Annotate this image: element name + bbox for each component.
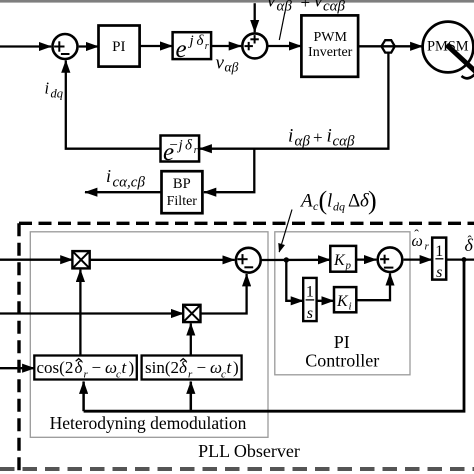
leader line from v label to wire [279, 13, 285, 41]
wire S1 to PI block [79, 45, 99, 47]
svg-text:+: + [313, 128, 323, 147]
wire branch down to BP filter [204, 148, 254, 193]
wire M1 to summing junction S3 [90, 259, 235, 261]
wire PI to e^jdr block [140, 45, 173, 47]
svg-text:(: ( [319, 186, 328, 215]
block Ki [334, 287, 356, 312]
label i_ca,cb [106, 166, 145, 190]
svg-text:BP: BP [173, 176, 191, 192]
feedback arrow up into cos block [82, 382, 85, 412]
svg-text:Heterodyning demodulation: Heterodyning demodulation [50, 413, 247, 433]
svg-text:αβ: αβ [225, 59, 239, 74]
leader line from A_c label to node [279, 210, 292, 253]
svg-text:cα,cβ: cα,cβ [113, 174, 146, 190]
svg-text:s: s [436, 264, 442, 281]
svg-text:i: i [45, 79, 50, 98]
svg-text:): ) [368, 186, 377, 215]
wire row1 input into multiplier M1 [0, 259, 73, 261]
block e^(j delta_r) [173, 32, 212, 63]
svg-text:K: K [336, 293, 349, 310]
wire branch down to 1/s of Ki path [286, 260, 303, 301]
svg-text:αβ: αβ [295, 134, 311, 150]
svg-text:sin(2: sin(2 [145, 358, 179, 377]
svg-text:cos(2: cos(2 [37, 358, 74, 377]
svg-text:+: + [301, 0, 311, 12]
svg-text:r: r [188, 369, 193, 381]
svg-text:αβ: αβ [277, 0, 293, 15]
wire cos output up into M1 [79, 270, 81, 356]
svg-text:Inverter: Inverter [308, 45, 353, 60]
wire Kp to summing junction S4 [356, 258, 376, 260]
svg-text:i: i [349, 301, 352, 313]
wire v_dq* input into summing junction S1 [0, 45, 51, 47]
svg-text:l: l [327, 191, 332, 212]
svg-text:−: − [92, 358, 102, 377]
svg-text:A: A [299, 191, 313, 212]
block PWM Inverter [301, 15, 358, 76]
label delta hat [465, 233, 474, 256]
wire v_calphabeta injection into S2 from top [254, 3, 256, 32]
summing junction S2 [242, 33, 267, 58]
svg-text:i: i [327, 126, 332, 147]
svg-text:K: K [333, 252, 346, 269]
feedback arrow up into sin block [190, 382, 193, 412]
svg-text:Δ: Δ [348, 191, 360, 212]
wire e^-jdr output left and up into S1 (i_dq feedback) [66, 60, 161, 148]
PLL observer dashed border bottom [0, 467, 474, 471]
svg-text:PWM: PWM [313, 30, 347, 45]
label i_ab + i_cab [288, 126, 355, 150]
wire 1/s to Ki [317, 300, 334, 302]
feedback wire down and left [84, 260, 464, 412]
svg-text:PLL Observer: PLL Observer [198, 441, 300, 461]
block Kp [330, 246, 356, 272]
svg-text:v: v [216, 52, 225, 73]
motor PMSM [423, 22, 474, 73]
svg-text:dq: dq [333, 200, 345, 214]
svg-text:dq: dq [51, 86, 64, 100]
wire S4 to integrator 1/s [404, 258, 432, 260]
svg-text:v: v [314, 0, 323, 12]
wire S3 output to Kp [261, 259, 330, 262]
block 1/s integrator (output) [432, 238, 446, 282]
label i_dq [45, 79, 64, 101]
block sin(2d_r - w_c t) [142, 356, 242, 381]
svg-text:v: v [267, 0, 276, 12]
wire PWM to current sensor and PMSM [358, 45, 422, 47]
block PI (current regulator) [99, 26, 140, 67]
wire e^jdr to summing junction S2 [211, 45, 241, 47]
block 1/s integrator (Ki path) [303, 278, 316, 322]
wire row3 input into cos block [0, 367, 35, 369]
svg-text:ˆ: ˆ [468, 233, 473, 248]
svg-text:e: e [176, 36, 187, 63]
svg-text:Filter: Filter [167, 194, 198, 209]
svg-text:p: p [345, 259, 352, 271]
svg-text:cαβ: cαβ [333, 134, 356, 150]
svg-text:PI: PI [334, 332, 350, 352]
PLL observer dashed border left [17, 223, 20, 474]
svg-text:−: − [197, 358, 207, 377]
svg-text:Controller: Controller [305, 350, 379, 370]
svg-text:r: r [205, 41, 209, 52]
svg-text:c: c [116, 369, 121, 381]
top gray border bar [0, 0, 474, 3]
PI controller gray box [275, 232, 410, 375]
block BP Filter [162, 171, 203, 213]
svg-text:): ) [129, 358, 135, 377]
label v_alphabeta [216, 52, 239, 74]
summing junction S1 [53, 34, 78, 59]
svg-text:δ: δ [185, 138, 193, 154]
label v_ab + v_cab [267, 0, 346, 15]
svg-text:s: s [307, 305, 313, 322]
wire Ki right and up into S4 [356, 273, 390, 300]
label omega_r hat [412, 228, 430, 252]
wire sin output up into M2 [190, 323, 192, 355]
svg-text:1: 1 [306, 284, 314, 301]
svg-text:r: r [425, 240, 430, 252]
svg-text:i: i [106, 166, 111, 186]
svg-text:cαβ: cαβ [323, 0, 346, 15]
svg-text:PI: PI [112, 39, 125, 55]
svg-text:ˆ: ˆ [414, 228, 419, 243]
wire row2 input into multiplier M2 [0, 312, 183, 314]
svg-text:r: r [84, 369, 89, 381]
svg-text:−: − [170, 138, 178, 154]
wire M2 output right and up into S3 [201, 274, 247, 314]
wire BP filter output i_ca,cb to the left [85, 191, 162, 193]
block cos(2d_r - w_c t) [34, 356, 137, 381]
wire current sensor down and left to e^-jdr block [200, 53, 389, 149]
motor shaft line [447, 45, 474, 72]
summing junction S3 [236, 248, 261, 273]
label A_c(l_dq delta) [299, 186, 377, 215]
node junction dot feedback [462, 257, 467, 262]
svg-text:): ) [233, 358, 239, 377]
current sensor hexagon [381, 40, 394, 52]
summing junction S4 [378, 247, 403, 272]
wire integrator output delta_r hat [446, 258, 474, 260]
block e^(-j delta_r) [161, 136, 200, 166]
wire S2 to PWM inverter [269, 45, 302, 47]
svg-text:r: r [194, 145, 198, 156]
multiplier M1 [72, 251, 89, 268]
svg-text:δ: δ [197, 33, 205, 49]
svg-text:c: c [221, 369, 226, 381]
PLL observer dashed border top [19, 222, 474, 225]
heterodyning demodulation gray box [30, 232, 268, 437]
multiplier M2 [183, 305, 200, 322]
caption PI Controller [305, 332, 379, 371]
node junction dot [284, 257, 289, 262]
svg-text:i: i [288, 126, 293, 147]
svg-text:1: 1 [435, 243, 443, 260]
motor shaft arc [462, 74, 474, 78]
